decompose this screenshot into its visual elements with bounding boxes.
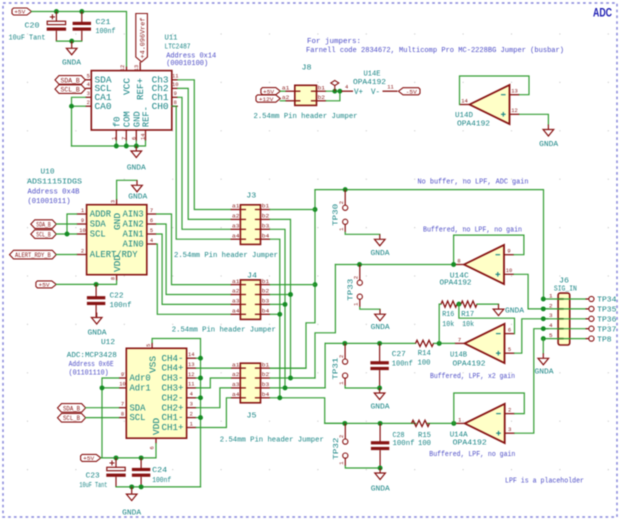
wire J3 b1 to net1 [270,209,315,211]
U10 left pins [77,208,138,260]
wire GND drop [135,141,137,146]
svg-text:3: 3 [190,402,193,408]
svg-text:VDD: VDD [112,255,123,272]
op-amp ADC U11 box [91,71,172,130]
junction J6 pin2 [541,306,546,311]
label C22 [110,292,124,300]
wire J4 b4 to net4 [270,313,280,315]
capacitor C23 (10uF Tant) [106,458,125,487]
svg-text:TP33: TP33 [347,279,355,301]
wire TP30 to ground [345,232,380,234]
svg-text:b1: b1 [262,361,270,368]
junction COM [124,144,129,149]
wire net3 drop to J5 b3 [324,343,326,388]
IC U10 box [87,205,147,275]
wire AIN3 to J4 a1 [157,214,231,285]
capacitor C28 100nf [371,423,389,468]
label ADC:MCP3428 [67,352,117,360]
ground GNDA (R17) [493,304,504,316]
wire TP33 to ground [360,307,380,309]
J4 pin stubs and names [231,278,271,315]
wire COM drop [125,141,127,146]
svg-text:+5V: +5V [39,282,51,289]
wire AIN1 to J4 a3 [157,234,231,304]
svg-text:GNDA: GNDA [539,141,559,149]
svg-text:13: 13 [134,65,140,71]
wire AIN0 to J4 a4 [157,244,231,314]
power flag +5V (top left) [12,8,32,16]
svg-text:8: 8 [110,277,116,280]
global label SDA_B (U12) [58,404,86,413]
connector J8 box [295,85,317,105]
svg-text:2: 2 [190,411,193,417]
label C20 [25,23,40,31]
svg-text:REF-: REF- [141,106,152,127]
label 100nf C27 [392,361,413,369]
junction TP30 [343,187,348,192]
ground GNDA (C22) [91,313,102,325]
wire SDA_B to U12 [86,407,119,409]
label R15 [418,432,431,440]
junction C24 top [139,455,144,460]
connector J5 box [240,363,260,403]
svg-text:GNDA: GNDA [505,307,525,315]
svg-text:4: 4 [549,322,553,329]
wire +5V rail to U11 VCC [32,12,127,67]
svg-text:J6: J6 [559,278,570,286]
capacitor C27 100nf [370,343,388,388]
svg-text:CH1+: CH1+ [162,422,184,433]
svg-text:VDD: VDD [151,418,162,435]
note Farnell code [306,47,564,55]
wire R16/R17 tap to pin6 [459,304,515,334]
U11 left pins SDA SCL CA1 CA0 [85,74,112,112]
svg-text:R15: R15 [418,432,431,440]
svg-text:1: 1 [354,303,360,306]
svg-text:TP31: TP31 [333,358,341,380]
label 2.54mm Pin header Jumper (J5) [220,436,324,444]
svg-text:C20: C20 [25,23,40,31]
test points TP34 TP35 TP36 TP37 TP8 [586,296,617,344]
label SIG_IN [554,285,577,293]
label U14E [364,70,381,78]
svg-text:14: 14 [461,99,467,105]
wire CH3+ to J5 a2 [196,378,230,388]
svg-text:GNDA: GNDA [128,193,148,201]
svg-text:TP8: TP8 [597,336,611,344]
connector J3 box [240,205,260,245]
svg-text:8: 8 [457,259,460,265]
svg-text:SIG_IN: SIG_IN [554,285,577,293]
svg-text:b4: b4 [262,232,270,239]
wire U14D feedback [460,76,530,105]
svg-text:U10: U10 [41,169,56,177]
wire J8 b2 up [326,91,340,101]
label Address 0x14 [166,53,216,61]
svg-text:V+: V+ [354,87,363,97]
svg-text:GNDA: GNDA [127,165,147,173]
wire U12 ground rail [116,486,201,488]
label LTC2487 [165,44,191,52]
wire U14A output line [325,422,416,424]
U11 right pins Ch3 Ch2 Ch1 CH0 [152,74,179,112]
wire CH4- to rail [196,357,200,359]
U11 pin 12 VCC (top) [120,65,132,95]
svg-text:9: 9 [121,372,124,378]
junction C22 top [94,282,99,287]
wire U14A + to J6 pin4 [515,329,548,434]
wire U14D + to ground [520,114,549,124]
svg-text:2.54mm Pin header Jumper: 2.54mm Pin header Jumper [220,436,324,444]
capacitor C22 100nf [87,284,105,317]
label C24 [152,467,168,475]
wire CH4+ to J5 a1 [196,367,230,369]
label 100nf C21 [96,28,116,36]
svg-text:2: 2 [549,302,553,309]
svg-text:a4: a4 [232,308,240,315]
svg-text:7: 7 [150,208,153,214]
op-amp U14D [460,85,520,124]
svg-text:ALERT_RDY_B: ALERT_RDY_B [15,252,51,259]
svg-text:9: 9 [507,249,510,255]
svg-text:5: 5 [508,347,511,353]
svg-text:ADC: ADC [593,6,612,20]
label OPA4192 (U14B) [453,361,486,369]
svg-text:U14B: U14B [450,352,467,360]
svg-text:100nf: 100nf [392,361,413,369]
svg-text:J3: J3 [246,193,257,201]
svg-text:12: 12 [120,65,126,71]
svg-text:a3: a3 [232,381,240,388]
label 10k R17 [462,321,475,329]
svg-text:J5: J5 [247,413,258,421]
svg-text:a1: a1 [232,203,240,210]
wire J8 b1 to U14E V+ [326,90,341,92]
junction C24 bottom [139,484,144,489]
svg-text:Buffered, LPF, x2 gain: Buffered, LPF, x2 gain [430,373,515,381]
svg-text:a4: a4 [232,232,240,239]
svg-text:10: 10 [79,228,85,234]
global label SCL_B (U10) [31,230,57,239]
svg-text:3: 3 [87,91,90,97]
wire J3 b4 down (net4) [270,239,280,398]
junction f0 [114,144,119,149]
label (00010100) [166,60,208,68]
junction at C21 top [79,9,84,14]
wire CH0 to J3 a4 [172,106,231,239]
wire TP32 to C28 bottom [345,466,380,468]
junction CH1- [198,415,203,420]
label GNDA (U11) [127,165,147,173]
svg-text:1: 1 [339,381,345,384]
junction J4 b2 [288,292,293,297]
connector J6 box [558,293,570,345]
wire J4 b3 to net3 [270,303,285,305]
label Address 0x4B [28,189,80,197]
svg-text:100: 100 [418,440,431,448]
svg-text:SDA_B: SDA_B [61,77,80,84]
wire SCL_B to U12 [86,417,119,419]
ground GNDA (C28) [375,468,386,480]
label 2.54mm Pin header Jumper (J3) [174,252,278,260]
svg-text:Address 0x4B: Address 0x4B [28,189,80,197]
label ADS1115IDGS [27,178,83,186]
svg-text:9: 9 [174,91,177,97]
wire f0 drop [115,141,117,146]
svg-text:11: 11 [188,382,194,388]
svg-text:10k: 10k [442,321,455,329]
junction J6 pin3 [541,316,546,321]
junction J4 b3 [283,302,288,307]
junction J6 pin5 [541,336,546,341]
junction CA0/CA1 [69,104,74,109]
label GNDA (U10 top) [128,193,148,201]
label 100nf C22 [110,302,132,310]
svg-text:-5V: -5V [406,88,418,95]
svg-text:b3: b3 [262,298,270,305]
svg-text:2: 2 [87,100,90,106]
note For jumpers: [307,38,361,46]
global label ALERT_RDY_B [10,250,57,259]
wire U12 Adr1 [102,387,119,389]
svg-text:No buffer, no LPF, ADC gain: No buffer, no LPF, ADC gain [418,179,529,187]
svg-text:9: 9 [81,218,84,224]
svg-text:5: 5 [87,74,90,80]
svg-text:U11: U11 [165,35,178,43]
svg-text:2: 2 [339,201,345,204]
svg-text:a3: a3 [232,223,240,230]
wire TP31 to C27 bottom [345,386,380,388]
ground GNDA (TP33) [375,309,386,321]
svg-text:GNDA: GNDA [371,404,391,412]
note No buffer, no LPF, ADC gain [418,179,529,187]
label OPA4192 (U14C) [440,279,472,287]
svg-text:1: 1 [190,421,193,427]
svg-text:VSS: VSS [147,356,158,373]
junction J6 pin4 [541,326,546,331]
svg-text:100nf: 100nf [110,302,132,310]
svg-text:GNDA: GNDA [62,60,82,68]
wire R17 to ground [477,303,499,305]
svg-text:10uF Tant: 10uF Tant [9,34,46,42]
svg-text:b4: b4 [262,391,270,398]
svg-text:2.54mm Pin header Jumper: 2.54mm Pin header Jumper [174,252,278,260]
svg-text:13: 13 [188,362,194,368]
test point TP32 [333,423,348,466]
label GNDA (C27) [371,404,391,412]
svg-text:AIN0: AIN0 [123,239,144,250]
ground GNDA below U11 [131,146,142,158]
svg-text:a2: a2 [232,288,240,295]
power flag +12V (J8 a2) [256,95,280,103]
wire CH2+ to J5 a3 [196,388,230,408]
wire net2 drop to J5 b2 [315,265,335,379]
svg-text:4: 4 [190,392,193,398]
label Address 0x6E [69,361,114,369]
svg-text:11: 11 [172,74,178,80]
svg-text:6: 6 [131,137,137,140]
label U10 [41,169,56,177]
wire U11 bottom rail [72,141,146,146]
wire R14 right to pin7 [434,342,455,344]
wire J4 b1 to net1 [270,284,315,286]
svg-text:C21: C21 [96,19,111,27]
resistor R16 10k [441,301,457,307]
svg-text:LTC2487: LTC2487 [165,44,191,52]
J3 pin stubs and names [231,203,271,240]
sheet title ADC [593,6,612,20]
svg-text:100nf: 100nf [393,440,415,448]
J6 pin numbers 1-5 [549,292,553,339]
wire Ch3 to J3 a1 [178,80,231,210]
svg-text:SDA_B: SDA_B [63,405,80,412]
label GNDA (U12) [122,510,142,518]
junction C27 top [377,341,382,346]
label U14A [450,432,468,440]
svg-text:U12: U12 [101,339,115,347]
svg-text:+4.096Vref: +4.096Vref [139,17,146,58]
svg-text:2: 2 [354,276,360,279]
note Buffered, LPF, x2 gain [430,373,515,381]
wire J5 b4 to net4 [270,398,345,424]
svg-text:6: 6 [508,327,511,333]
svg-text:b2: b2 [318,94,326,101]
svg-text:13: 13 [511,89,517,95]
svg-text:GNDA: GNDA [371,486,391,494]
svg-text:TP32: TP32 [333,438,341,460]
U10 pin 3 GND top [110,199,123,230]
junction C28 top [378,421,383,426]
net label +4.096Vref (vertical) [136,14,148,62]
svg-text:TP35: TP35 [597,307,616,315]
wire +12V to J8 a2 [280,100,285,102]
wire Ch2 to J3 a2 [178,88,231,219]
junction C23 top [114,455,119,460]
wire net1 drop to J5 b1 [270,190,315,369]
svg-text:C24: C24 [152,467,168,475]
capacitor C20 (10uF Tant) [47,12,66,42]
junction R16 tap [437,341,442,346]
junction b2/V+ [337,89,342,94]
svg-text:5: 5 [146,344,152,347]
wire R15 right to pin1 [427,422,455,424]
svg-text:V-: V- [371,87,380,97]
U12 pin 5 VSS top [146,343,159,374]
capacitor C24 100nf [132,458,150,487]
wire U14C + to J6 pin2 [514,274,548,309]
svg-text:R14: R14 [418,350,431,358]
U11 pin 13 REF+ (top) [134,62,146,100]
op-amp U14C [454,245,514,284]
label 100 R14 [418,360,431,368]
wire J4 b2 to net2 [270,294,290,296]
junction Adr1 [100,385,105,390]
ground GNDA (C27) [374,388,385,400]
svg-text:7: 7 [121,402,124,408]
label 10k R16 [442,321,455,329]
svg-text:b2: b2 [262,213,270,220]
U12 right pins CH4..CH1 [162,352,197,433]
wire U14B + to J6 pin3 [515,319,549,353]
label (01001011) [28,198,71,206]
svg-text:Address 0x6E: Address 0x6E [69,361,114,369]
svg-text:OPA4192: OPA4192 [453,440,487,448]
wire J6 pin5 to ground [542,339,544,354]
wire CH1+ to J5 a4 [196,398,230,428]
svg-text:3: 3 [110,200,116,203]
junction U14C feedback [451,262,456,267]
note LPF is a placeholder [505,478,584,486]
wire CH2- to rail [196,397,200,399]
svg-text:CA0: CA0 [95,101,112,112]
svg-text:R16: R16 [442,311,454,319]
label 10uF Tant [9,34,46,42]
wire U10 GND up [117,180,137,199]
svg-text:U14D: U14D [455,112,473,120]
junction R16/R17 [456,302,461,307]
U12 pin 6 VDD bottom [150,418,163,450]
wire +5V to U10 VDD [56,281,116,285]
svg-text:+5V: +5V [83,455,95,462]
ground GNDA (U10 top) [132,180,143,192]
junction C28 bottom [378,466,383,471]
wires J6 rows to test points [543,299,585,339]
junction J6 pin1 [541,297,546,302]
junction TP32 [342,421,347,426]
wire J5 b3 to net3 riser [270,387,325,389]
svg-text:10k: 10k [462,321,475,329]
wire U11 CA0 to left [72,105,86,107]
junction at decoupling ground [69,39,74,44]
label J8 [302,65,312,73]
svg-text:TP36: TP36 [597,317,616,325]
power flag PWR_FLAG diamond [331,80,339,91]
label U14C [450,272,470,280]
ground GNDA (J6) [538,353,549,365]
svg-text:TP30: TP30 [333,204,341,226]
junction TP31 [342,341,347,346]
svg-text:4: 4 [345,85,348,91]
svg-text:b1: b1 [318,84,326,91]
junction TP33 [357,262,362,267]
svg-text:OPA4192: OPA4192 [353,79,386,87]
svg-text:Buffered, LPF, no gain: Buffered, LPF, no gain [429,451,515,459]
svg-text:2: 2 [81,248,84,254]
svg-text:Farnell code 2834672, Multicom: Farnell code 2834672, Multicomp Pro MC-2… [306,47,564,55]
wire SDA_B to U10 [56,223,76,225]
svg-text:a1: a1 [232,278,240,285]
junction ADDR/SCL [65,232,70,237]
svg-text:5: 5 [549,332,553,339]
junction J5 b4 [277,395,282,400]
label GNDA (C22) [88,330,108,338]
svg-text:SCL_B: SCL_B [63,415,80,422]
svg-text:a2: a2 [282,94,290,101]
wire J5 b1 from net1 [270,367,306,369]
wire U14A feedback loop [454,393,525,423]
U10 pin 8 VDD bottom [110,255,123,281]
svg-text:a1: a1 [232,361,240,368]
label GNDA (R17) [505,307,525,315]
svg-text:GNDA: GNDA [88,330,108,338]
junction gnd stub U12 [129,484,134,489]
wire U11 CA1 to left [72,97,86,146]
junction J5 b3 [283,385,288,390]
junction CH4- [198,356,203,361]
global label SCL_B (U12) [58,414,86,423]
power flag -5V [399,88,421,96]
svg-text:b1: b1 [262,203,270,210]
